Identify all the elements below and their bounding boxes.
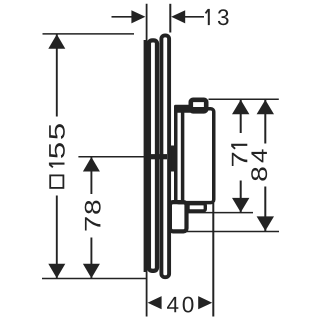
- handle body: [176, 109, 214, 203]
- label 84 digit 8: [251, 167, 267, 180]
- extension line plate top (155 dim): [43, 33, 135, 35]
- dimension 13 leader right wire: [185, 16, 204, 18]
- dimension 84 arrow up: [257, 100, 274, 115]
- handle knob on top: [191, 100, 206, 112]
- dimension 78 arrow down: [83, 264, 100, 279]
- label 155 digit 1 stem: [49, 163, 65, 165]
- extension line knob top (71/84 dims): [209, 98, 279, 100]
- label 84 digit 4: [251, 149, 266, 162]
- label 13 digit 1 stem: [208, 9, 210, 25]
- label 155 digit 1 flag: [50, 164, 53, 167]
- dimension 84 arrow down: [257, 216, 274, 231]
- handle bottom tab: [188, 204, 205, 211]
- handle inner ring line: [181, 113, 185, 204]
- handle lower piece: [170, 202, 187, 231]
- wall line thick segment behind plate: [144, 40, 147, 272]
- label 13 digit 1 flag: [206, 10, 209, 14]
- plate front face: [161, 35, 169, 277]
- label 40 digit 4: [167, 297, 178, 312]
- label 71 digit 7: [232, 153, 247, 166]
- dimension 155 arrow up: [48, 34, 65, 49]
- dimension 155 line lower segment: [56, 196, 58, 279]
- plate back edge (rounded square rear profile): [149, 40, 157, 270]
- dimension 84 line upper segment: [264, 100, 266, 144]
- dimension 84 line lower segment: [264, 187, 266, 232]
- label 78 digit 8: [85, 201, 101, 214]
- valve hub section at axis: [150, 154, 167, 159]
- label 78 digit 7: [85, 217, 100, 230]
- label square symbol of 155: [50, 175, 63, 188]
- dimension 78 arrow up: [83, 157, 100, 172]
- valve stem bridge plate-to-handle: [170, 146, 176, 172]
- dimension 155 arrow down: [48, 264, 65, 279]
- extension line handle bottom (71 dim): [188, 212, 253, 214]
- handle rear shoulder: [174, 105, 192, 113]
- wall line: [146, 4, 148, 317]
- label 71 digit 1 stem: [231, 144, 247, 146]
- dimension 71 arrow down: [232, 198, 249, 213]
- dimension 13 arrow left: [131, 10, 145, 23]
- extension line handle front (40 dim): [212, 203, 214, 317]
- label 40 digit 0: [183, 297, 194, 313]
- dimension 40 arrow right: [198, 296, 212, 309]
- extension line valve axis (78 dim): [78, 156, 154, 158]
- label 13 digit 3: [218, 9, 229, 25]
- dimension 71 arrow up: [232, 100, 249, 115]
- dimension 40 arrow left: [148, 296, 162, 309]
- label 155 digit 5a: [49, 143, 65, 158]
- dimension 78 line upper segment: [90, 157, 92, 194]
- extension line front face (13 dim right): [169, 4, 171, 33]
- label 71 digit 1 flag: [232, 146, 235, 149]
- extension line plate bottom (155 dim): [42, 278, 146, 280]
- dimension 78 line lower segment: [90, 238, 92, 279]
- dimension 71 line upper segment: [240, 100, 242, 133]
- dimension 155 line upper segment: [56, 34, 58, 116]
- dimension 13 leader left wire: [112, 16, 133, 18]
- label 155 digit 5b: [49, 124, 65, 139]
- dimension 71 line lower segment: [240, 181, 242, 213]
- dimension 13 arrow right: [171, 10, 185, 23]
- extension line lower piece bottom (84 dim): [183, 231, 279, 233]
